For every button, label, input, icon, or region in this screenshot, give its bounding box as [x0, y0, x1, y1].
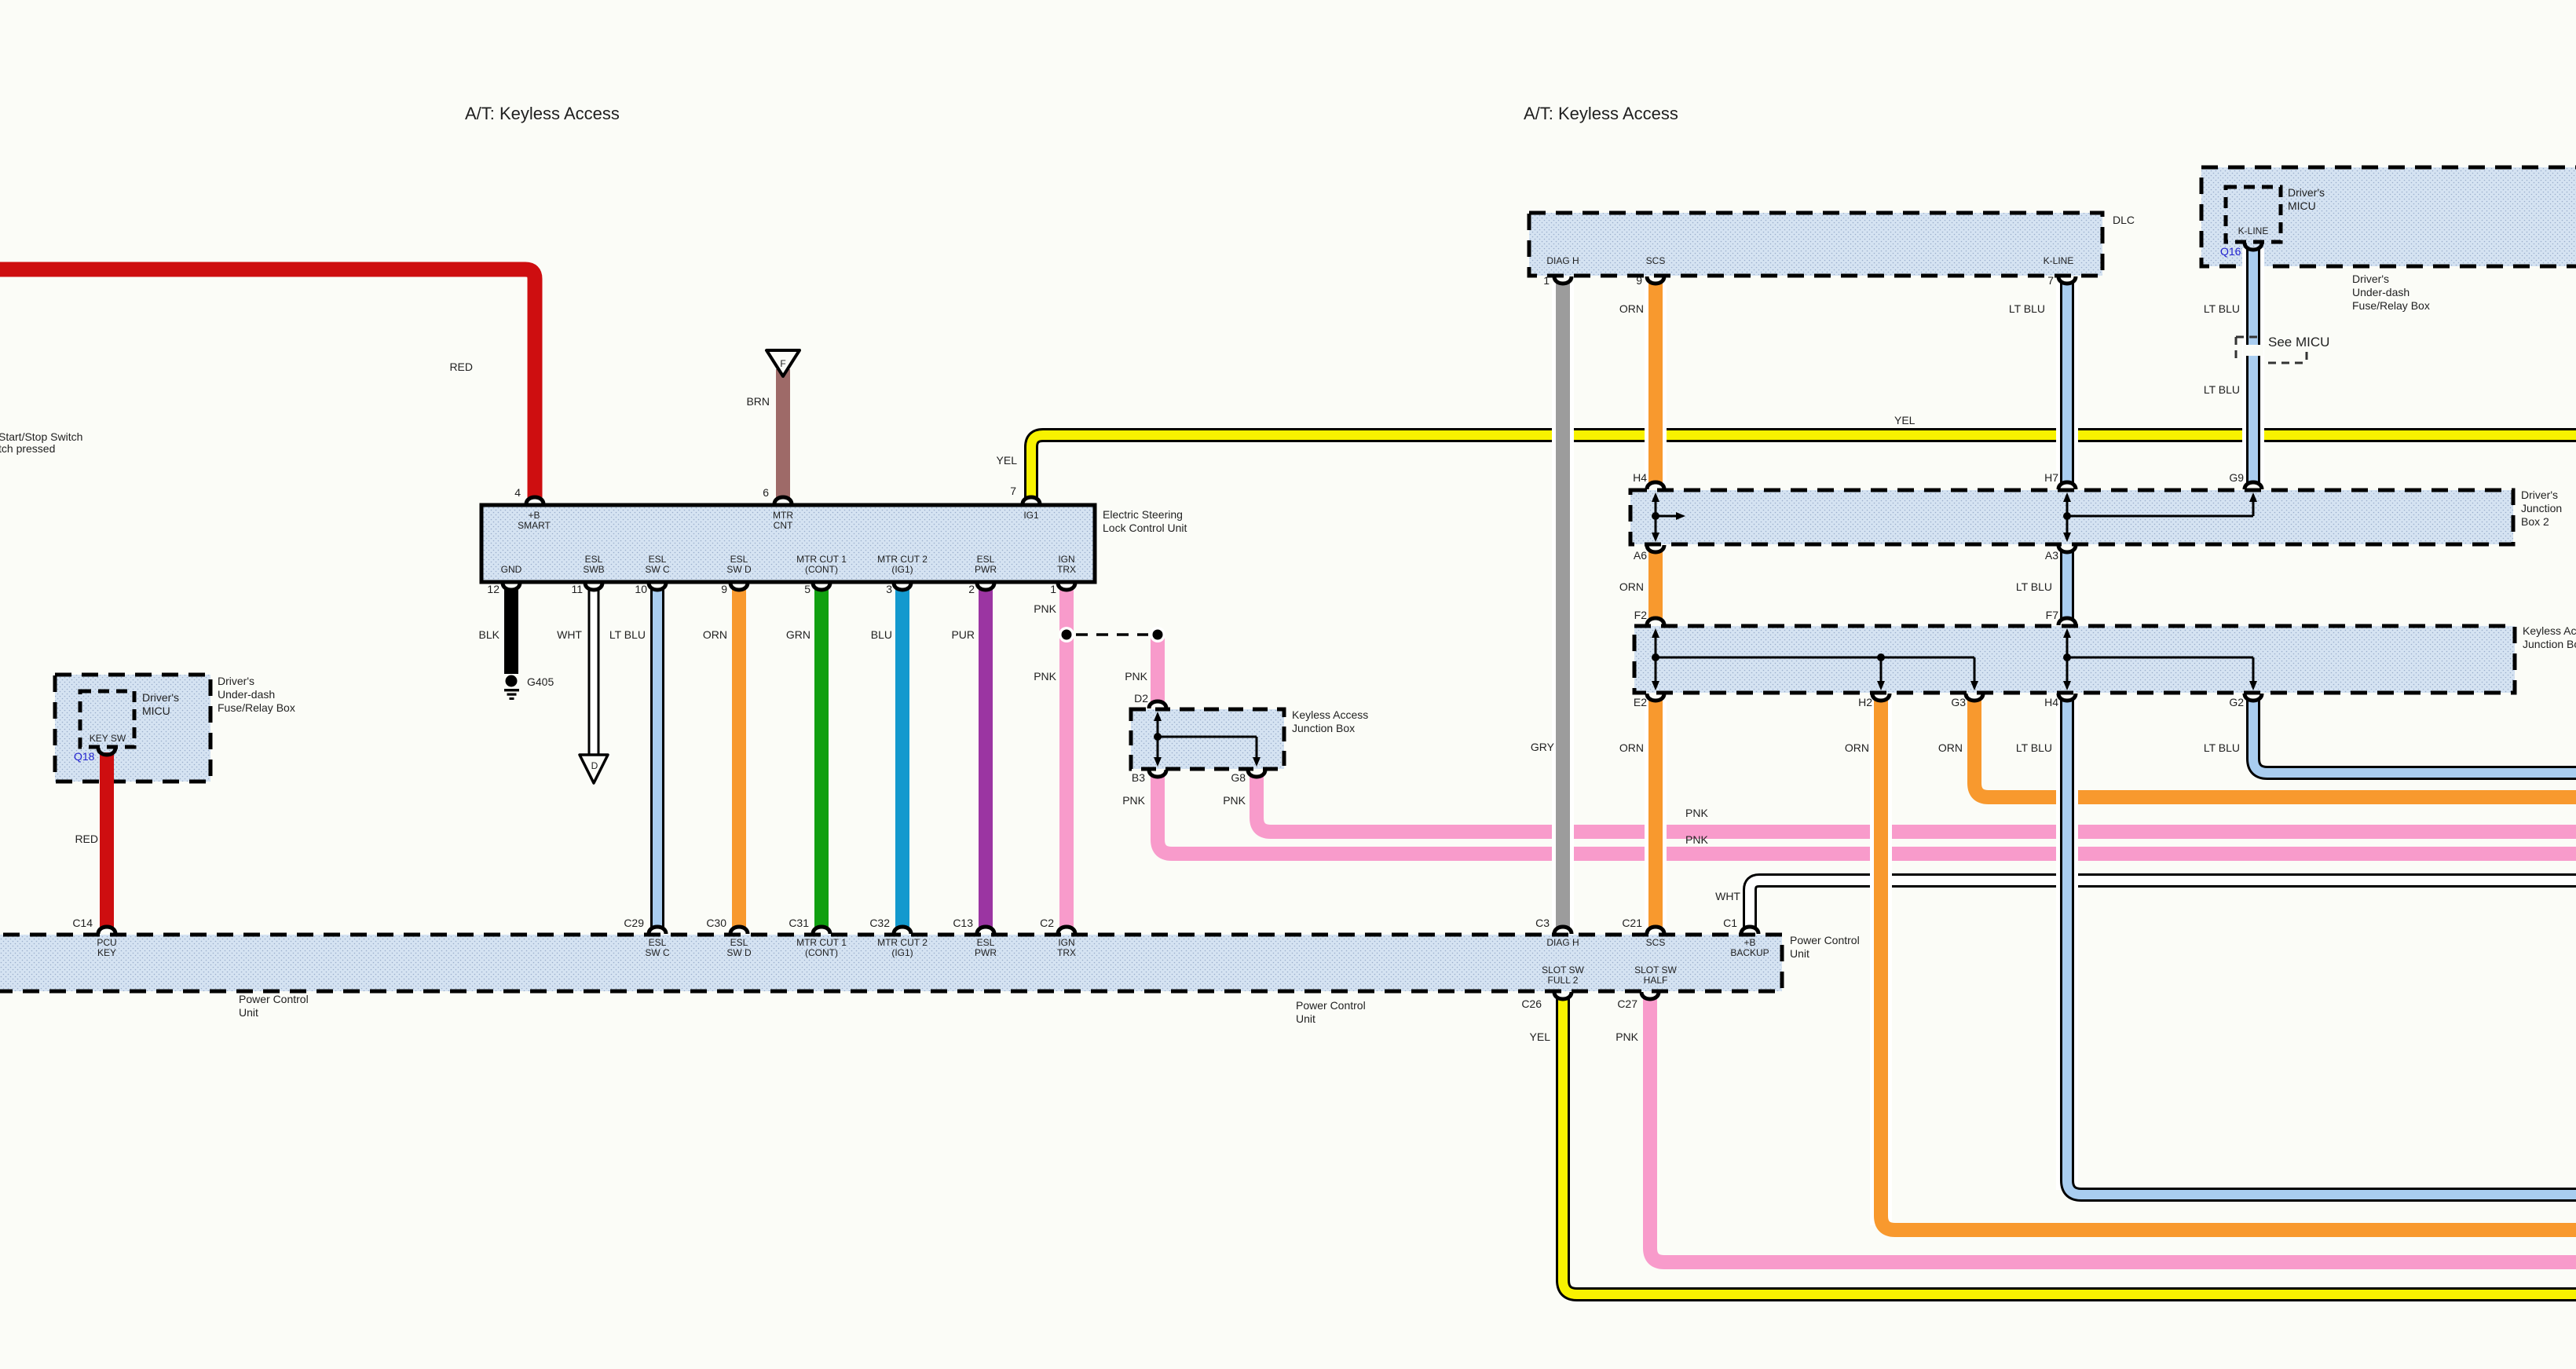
label Driver's Under-dash Fuse/Relay Box left [218, 675, 295, 714]
label Power Control Unit left [239, 993, 309, 1019]
svg-text:RED: RED [75, 833, 98, 845]
pin arcs: ESL box top pins 4,6,7 [526, 497, 1040, 504]
wire LT BLU G2 to right edge [2253, 700, 2576, 773]
svg-text:LT BLU: LT BLU [2204, 302, 2240, 315]
svg-text:LT BLU: LT BLU [2204, 741, 2240, 754]
svg-text:F2: F2 [1634, 609, 1648, 621]
wire WHT +B BACKUP C1 to right edge [1750, 880, 2576, 928]
svg-text:MTR CUT 2: MTR CUT 2 [877, 554, 928, 565]
wire PNK SLOT SW HALF C27 to right edge [1650, 998, 2576, 1262]
pin numbers ESL top 4,6,7 [514, 485, 1016, 499]
wire RED battery feed to +B SMART pin 4 [0, 269, 535, 498]
svg-text:Power Control: Power Control [1790, 934, 1860, 946]
ESL in-box labels bottom [501, 554, 1076, 575]
label Electric Steering Lock Control Unit [1103, 508, 1187, 534]
wire BRN MTR CNT pin 6 from fuse F [776, 369, 790, 498]
svg-text:ESL: ESL [649, 937, 667, 948]
svg-text:KEY: KEY [97, 947, 116, 958]
wire color labels below keyless box [1619, 741, 2240, 754]
svg-text:D: D [591, 760, 598, 771]
label Driver's MICU left [142, 691, 179, 717]
svg-text:Junction Box: Junction Box [1292, 722, 1355, 734]
wire ORN H2 to right edge [1881, 700, 2576, 1230]
wire color labels ESL-PCU [479, 628, 975, 641]
svg-text:12: 12 [487, 583, 499, 595]
svg-text:A/T: Keyless Access: A/T: Keyless Access [465, 104, 620, 123]
box DLC [1529, 213, 2102, 276]
junction line F2-E2-H2-G3 [1655, 631, 1657, 688]
svg-text:10: 10 [635, 583, 647, 595]
note Start/Stop Switch pressed [0, 430, 82, 455]
DLC pin numbers [1543, 274, 2054, 287]
pin arcs: PCU top C14,C29,C30,C31,C32,C13,C2,C3,C21,C1 [98, 927, 1758, 934]
svg-text:FULL 2: FULL 2 [1548, 975, 1579, 986]
box Driver's Under-dash Fuse/Relay Box (right) [2201, 167, 2576, 266]
svg-text:C14: C14 [72, 917, 93, 929]
svg-text:Driver's: Driver's [2521, 489, 2558, 501]
pin numbers ESL bottom [487, 583, 1056, 595]
svg-text:H4: H4 [1633, 471, 1647, 484]
svg-text:C27: C27 [1617, 997, 1637, 1010]
svg-text:Under-dash: Under-dash [218, 688, 275, 701]
svg-text:B3: B3 [1132, 771, 1145, 784]
svg-text:SW C: SW C [645, 564, 670, 575]
label Driver's Junction Box 2 [2521, 489, 2562, 528]
svg-text:Fuse/Relay Box: Fuse/Relay Box [218, 701, 295, 714]
svg-text:A/T: Keyless Access: A/T: Keyless Access [1524, 104, 1678, 123]
wire ORN G3 to right edge [1974, 700, 2576, 797]
svg-text:PUR: PUR [951, 628, 975, 641]
svg-text:(IG1): (IG1) [891, 564, 913, 575]
svg-text:+B: +B [528, 510, 540, 521]
wire LT BLU A3 to F7 [2060, 551, 2074, 619]
svg-text:K-LINE: K-LINE [2044, 255, 2074, 266]
svg-text:6: 6 [763, 486, 769, 499]
pin arcs: Junction Box 2 bottom A6,A3 [1647, 545, 2076, 552]
svg-text:Driver's: Driver's [2352, 273, 2389, 285]
svg-text:C21: C21 [1622, 917, 1642, 929]
svg-text:See MICU: See MICU [2268, 335, 2329, 350]
wire PNK B3 to right edge [1158, 776, 2576, 854]
svg-text:Start/Stop Switch: Start/Stop Switch [0, 430, 82, 443]
svg-text:C29: C29 [624, 917, 644, 929]
svg-text:SCS: SCS [1646, 255, 1666, 266]
pin arcs: Keyless box bottom E2,H2,G3,H4,G2 [1647, 694, 2262, 701]
svg-text:Keyless Access: Keyless Access [1292, 708, 1368, 721]
svg-text:YEL: YEL [997, 454, 1018, 467]
svg-text:PNK: PNK [1685, 833, 1708, 846]
svg-text:SW C: SW C [645, 947, 670, 958]
svg-text:9: 9 [1636, 274, 1642, 287]
svg-text:C3: C3 [1535, 917, 1550, 929]
svg-text:ESL: ESL [649, 554, 667, 565]
svg-text:GND: GND [501, 564, 522, 575]
svg-text:MTR CUT 1: MTR CUT 1 [796, 937, 847, 948]
svg-text:K-LINE: K-LINE [2238, 225, 2269, 236]
wire LT BLU H4 to right edge [2067, 700, 2576, 1195]
svg-text:MTR CUT 2: MTR CUT 2 [877, 937, 928, 948]
box U1 Electric Steering Lock Control Unit [481, 505, 1095, 582]
svg-text:H2: H2 [1858, 696, 1872, 708]
svg-text:WHT: WHT [557, 628, 582, 641]
junction line F7-H4-G2 [2066, 631, 2069, 688]
svg-text:Driver's: Driver's [218, 675, 254, 687]
svg-text:G2: G2 [2229, 696, 2244, 708]
svg-text:SCS: SCS [1646, 937, 1666, 948]
junction line H4-A6 [1655, 495, 1657, 540]
box Power Control Unit [0, 935, 1782, 991]
svg-text:BLU: BLU [871, 628, 892, 641]
wire PNK G8 to right edge [1257, 776, 2576, 832]
svg-text:YEL: YEL [1894, 414, 1916, 426]
svg-text:SMART: SMART [518, 520, 551, 531]
pin arcs: Keyless box top F2,F7 [1647, 618, 2076, 625]
wire ORN ESL SW D pin 9 to C30 [732, 589, 746, 928]
svg-text:MICU: MICU [2288, 199, 2316, 212]
svg-text:7: 7 [2047, 274, 2054, 287]
svg-text:A3: A3 [2045, 549, 2058, 562]
svg-text:YEL: YEL [1530, 1030, 1551, 1043]
svg-text:BACKUP: BACKUP [1730, 947, 1769, 958]
wire YEL IG1 pin 7 to right edge [1031, 435, 2576, 498]
svg-text:ORN: ORN [1619, 741, 1644, 754]
wire PNK IGN TRX pin 1 to C2 [1059, 589, 1074, 928]
svg-text:+B: +B [1744, 937, 1755, 948]
svg-text:C1: C1 [1723, 917, 1737, 929]
svg-text:PNK: PNK [1122, 794, 1145, 807]
svg-text:GRN: GRN [786, 628, 810, 641]
wire LT BLU ESL SW C pin 10 to C29 [650, 589, 664, 928]
svg-text:ESL: ESL [977, 554, 995, 565]
wire WHT ESL SWB pin 11 to connector D [580, 589, 608, 783]
svg-text:PNK: PNK [1223, 794, 1246, 807]
keyless box pin labels bottom [1634, 696, 2244, 708]
svg-text:Fuse/Relay Box: Fuse/Relay Box [2352, 299, 2430, 312]
wire RED KEY SW Q18 to C14 [100, 752, 114, 928]
ESL in-box labels top [518, 510, 1039, 531]
svg-text:PWR: PWR [975, 947, 997, 958]
svg-text:A6: A6 [1634, 549, 1647, 562]
svg-text:MTR CUT 1: MTR CUT 1 [796, 554, 847, 565]
svg-text:ORN: ORN [1845, 741, 1869, 754]
svg-text:7: 7 [1010, 485, 1016, 497]
svg-text:ESL: ESL [730, 937, 748, 948]
svg-text:C2: C2 [1040, 917, 1054, 929]
svg-text:Power Control: Power Control [239, 993, 309, 1005]
svg-text:(CONT): (CONT) [805, 947, 838, 958]
svg-text:BRN: BRN [746, 395, 770, 408]
junction line H7-A3-G9 [2066, 495, 2069, 540]
pin arc: KEY SW Q18 [98, 748, 115, 755]
svg-text:Keyless Access: Keyless Access [2523, 624, 2576, 637]
svg-text:PNK: PNK [1615, 1030, 1638, 1043]
svg-text:BLK: BLK [479, 628, 500, 641]
svg-text:5: 5 [804, 583, 810, 595]
svg-text:SLOT SW: SLOT SW [1634, 965, 1677, 976]
pin arcs: small keyless box D2 top, B3 G8 bottom [1149, 701, 1265, 777]
svg-text:GRY: GRY [1531, 741, 1555, 753]
wire GRY DIAG H (DLC pin 1 to C3) [1552, 283, 1574, 928]
svg-text:9: 9 [721, 583, 727, 595]
svg-text:Under-dash: Under-dash [2352, 286, 2410, 298]
svg-text:D2: D2 [1134, 692, 1148, 705]
svg-text:LT BLU: LT BLU [2016, 741, 2052, 754]
svg-text:Driver's: Driver's [2288, 186, 2325, 199]
wire PNK splice to D2 [1151, 636, 1165, 702]
wire PUR ESL PWR pin 2 to C13 [979, 589, 993, 928]
svg-text:H7: H7 [2044, 471, 2058, 484]
svg-text:DIAG H: DIAG H [1546, 255, 1579, 266]
keyless box pin labels top [1634, 609, 2059, 621]
svg-text:CNT: CNT [774, 520, 793, 531]
svg-text:Q18: Q18 [74, 750, 95, 763]
svg-text:IGN: IGN [1058, 937, 1074, 948]
svg-text:1: 1 [1543, 274, 1550, 287]
svg-text:Power Control: Power Control [1296, 999, 1366, 1012]
svg-text:ORN: ORN [1619, 302, 1644, 315]
junction line D2-B3-G8 [1157, 714, 1159, 764]
svg-text:ORN: ORN [1619, 580, 1644, 593]
svg-text:MTR: MTR [773, 510, 793, 521]
svg-text:ORN: ORN [1938, 741, 1963, 754]
box Keyless Access Junction Box (small, middle) [1131, 709, 1284, 769]
svg-text:SW D: SW D [726, 947, 752, 958]
svg-text:Driver's: Driver's [142, 691, 179, 704]
svg-text:ESL: ESL [730, 554, 748, 565]
label Keyless Access Junction Box right [2523, 624, 2576, 650]
wire LT BLU K-LINE Q16 to G9 [2243, 248, 2263, 483]
svg-text:TRX: TRX [1057, 947, 1076, 958]
junction box 2 pin labels bottom [1634, 549, 2058, 562]
C-connector labels above PCU [72, 917, 1737, 929]
junction box 2 pin labels top [1633, 471, 2244, 484]
fuse symbol F [767, 350, 800, 376]
svg-text:DLC: DLC [2113, 214, 2135, 226]
pin arcs: PCU bottom C26,C27 [1554, 992, 1659, 999]
svg-text:LT BLU: LT BLU [2009, 302, 2045, 315]
wire BLK GND pin 12 to G405 [504, 589, 518, 674]
svg-text:G3: G3 [1951, 696, 1966, 708]
svg-text:PNK: PNK [1125, 670, 1147, 683]
svg-text:G8: G8 [1231, 771, 1246, 784]
svg-text:Junction Box: Junction Box [2523, 638, 2576, 650]
pin arcs: DLC bottom pins 1,9,7 [1554, 276, 2076, 284]
svg-text:ORN: ORN [703, 628, 727, 641]
svg-text:DIAG H: DIAG H [1546, 937, 1579, 948]
svg-text:PWR: PWR [975, 564, 997, 575]
svg-text:G9: G9 [2229, 471, 2244, 484]
PCU in-box labels [97, 937, 1769, 986]
wire ORN SCS (DLC pin 9 to H4) [1645, 283, 1667, 483]
label Driver's Under-dash Fuse/Relay Box right [2352, 273, 2430, 312]
svg-text:tch pressed: tch pressed [0, 442, 55, 455]
interrupt symbol See MICU [2236, 337, 2307, 363]
svg-text:TRX: TRX [1057, 564, 1076, 575]
pin arcs: ESL box bottom pins 12,11,10,9,5,3,2,1 [503, 583, 1075, 590]
svg-text:ESL: ESL [585, 554, 603, 565]
svg-text:IGN: IGN [1058, 554, 1074, 565]
wire ORN E2 to C21 [1645, 700, 1667, 928]
svg-text:Unit: Unit [1790, 947, 1809, 960]
svg-text:E2: E2 [1634, 696, 1647, 708]
svg-text:LT BLU: LT BLU [2016, 580, 2052, 593]
svg-text:LT BLU: LT BLU [609, 628, 646, 641]
svg-text:11: 11 [571, 583, 583, 595]
svg-text:C32: C32 [869, 917, 890, 929]
wire LT BLU K-LINE (DLC pin 7 to H7) [2056, 283, 2078, 483]
svg-text:C13: C13 [953, 917, 973, 929]
svg-text:H4: H4 [2044, 696, 2058, 708]
box Driver's Under-dash Fuse/Relay Box (left) [55, 675, 210, 782]
svg-text:C26: C26 [1521, 997, 1542, 1010]
svg-text:Junction: Junction [2521, 502, 2562, 514]
svg-text:HALF: HALF [1644, 975, 1668, 986]
svg-text:G405: G405 [527, 675, 554, 688]
svg-text:PNK: PNK [1685, 807, 1708, 819]
label Power Control Unit right [1790, 934, 1860, 960]
svg-text:IG1: IG1 [1023, 510, 1039, 521]
svg-text:2: 2 [968, 583, 975, 595]
svg-text:Electric Steering: Electric Steering [1103, 508, 1183, 521]
label Keyless Access Junction Box small [1292, 708, 1368, 734]
svg-text:C31: C31 [789, 917, 809, 929]
wire ORN A6 to F2 [1648, 551, 1663, 619]
svg-text:Q16: Q16 [2220, 245, 2241, 258]
svg-text:F: F [780, 358, 785, 369]
svg-text:3: 3 [886, 583, 892, 595]
svg-text:(CONT): (CONT) [805, 564, 838, 575]
svg-text:SWB: SWB [583, 564, 604, 575]
svg-text:Lock Control Unit: Lock Control Unit [1103, 522, 1187, 534]
svg-text:ESL: ESL [977, 937, 995, 948]
svg-text:Box 2: Box 2 [2521, 515, 2549, 528]
svg-text:LT BLU: LT BLU [2204, 383, 2240, 396]
svg-text:PNK: PNK [1034, 602, 1056, 615]
box Keyless Access Junction Box (right) [1634, 626, 2515, 693]
label Driver's MICU right [2288, 186, 2325, 212]
svg-text:PNK: PNK [1034, 670, 1056, 683]
wire BLU MTR CUT 2 pin 3 to C32 [895, 589, 909, 928]
pin arc: Driver's MICU K-LINE Q16 [2245, 243, 2262, 250]
box Driver's MICU KEY SW (inner left) [80, 691, 134, 747]
svg-text:1: 1 [1050, 583, 1056, 595]
box Driver's Junction Box 2 [1630, 490, 2513, 544]
svg-text:C30: C30 [706, 917, 726, 929]
wire YEL SLOT SW FULL 2 C26 to right edge [1563, 998, 2576, 1294]
svg-text:MICU: MICU [142, 705, 170, 717]
svg-text:RED: RED [449, 361, 473, 373]
pin arcs: Junction Box 2 top H4,H7,G9 [1647, 482, 2262, 489]
svg-text:PCU: PCU [97, 937, 116, 948]
svg-text:SW D: SW D [726, 564, 752, 575]
svg-text:F7: F7 [2046, 609, 2059, 621]
ground G405 [504, 675, 519, 701]
svg-text:(IG1): (IG1) [891, 947, 913, 958]
wire GRN MTR CUT 1 pin 5 to C31 [814, 589, 829, 928]
svg-text:KEY SW: KEY SW [90, 733, 126, 744]
svg-text:WHT: WHT [1715, 890, 1740, 902]
svg-text:4: 4 [514, 486, 521, 499]
svg-text:Unit: Unit [1296, 1012, 1315, 1025]
DLC in-box labels [1546, 255, 2073, 266]
box Driver's MICU K-LINE (inner right) [2226, 187, 2281, 242]
label Power Control Unit middle [1296, 999, 1366, 1025]
svg-text:Unit: Unit [239, 1006, 258, 1019]
splice junction dashed link [1059, 627, 1165, 642]
svg-text:SLOT SW: SLOT SW [1542, 965, 1584, 976]
